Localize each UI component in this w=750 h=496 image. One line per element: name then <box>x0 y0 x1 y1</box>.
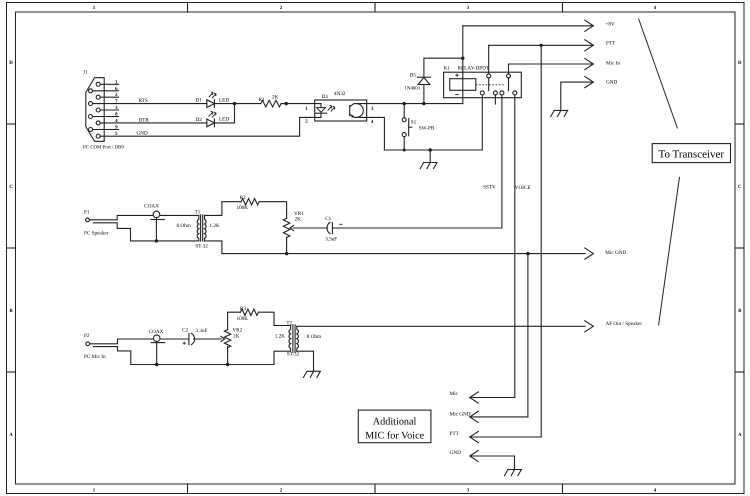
svg-text:1.2K: 1.2K <box>210 223 220 229</box>
node Additional MIC for Voice box <box>358 410 431 443</box>
svg-text:PTT: PTT <box>606 40 616 46</box>
svg-text:R3: R3 <box>240 306 246 312</box>
wire contact4 down to Mic <box>514 95 516 398</box>
ground <box>551 110 568 116</box>
wire GND bottom to ground <box>514 456 516 470</box>
connector P1 <box>86 218 90 222</box>
wire P1 sleeve to shield rail <box>93 223 199 241</box>
wire brace diagonal lower <box>659 177 680 326</box>
node junction after R1 <box>285 102 288 105</box>
resistor R3 100K <box>240 309 258 315</box>
svg-text:Mic GND: Mic GND <box>450 412 471 418</box>
potentiometer VR1 2K <box>283 218 289 237</box>
wire pole1 up to PTT <box>488 45 490 74</box>
ground <box>429 150 431 163</box>
node mic gnd junction <box>526 252 529 255</box>
svg-text:COAX: COAX <box>144 203 159 209</box>
wire R1 to opto pin1 <box>281 103 315 105</box>
svg-text:GND: GND <box>137 131 148 137</box>
svg-text:A: A <box>9 432 13 438</box>
J1 pin 3 <box>96 108 100 112</box>
coax shield connector 1 <box>153 211 160 218</box>
switch S1 SW-PB <box>402 118 406 122</box>
zone tick right D/C <box>735 123 744 125</box>
connector J1 (DB9) body <box>86 78 104 142</box>
svg-text:D: D <box>738 60 742 66</box>
K1 pole 1 common contact <box>487 74 491 78</box>
wire contact3 down to SSTV <box>501 95 503 228</box>
K1 bottom contact 2 (nc stub) <box>493 91 497 95</box>
op-amp U1 : optocoupler D3 4N32 box <box>315 100 367 121</box>
svg-text:PC Speaker: PC Speaker <box>84 230 109 236</box>
svg-text:3.3uF: 3.3uF <box>196 328 208 334</box>
svg-text:D2: D2 <box>196 117 203 123</box>
svg-text:D1: D1 <box>196 98 203 104</box>
svg-text:2K: 2K <box>295 217 302 223</box>
svg-text:SSTV: SSTV <box>483 185 496 191</box>
svg-text:PC COM Port / DB9: PC COM Port / DB9 <box>83 145 124 151</box>
svg-text:PTT: PTT <box>450 431 460 437</box>
svg-text:R1: R1 <box>259 97 265 103</box>
node D5 top junction <box>461 57 464 60</box>
svg-text:K1: K1 <box>444 66 451 72</box>
J1 pin 5 <box>96 134 100 138</box>
svg-text:R2: R2 <box>240 195 246 201</box>
svg-text:J1: J1 <box>83 70 88 76</box>
svg-text:D3: D3 <box>322 94 329 100</box>
K1 bottom contact 4 <box>513 91 517 95</box>
node junction D1/D2 <box>233 102 236 105</box>
wire rail up to T2 primary bottom <box>274 351 291 364</box>
arrow GND bottom <box>470 455 515 457</box>
connector P2 <box>86 342 90 346</box>
zone tick bottom 3/4 <box>562 484 564 494</box>
zone tick left D/C <box>7 123 16 125</box>
wire PTT down to bottom <box>540 45 542 437</box>
J1 pin 6 <box>89 89 93 93</box>
svg-text:1N4001: 1N4001 <box>405 85 421 91</box>
svg-text:8 Ohm: 8 Ohm <box>177 223 191 229</box>
relay K1 RELAY-DPDT box <box>444 72 522 98</box>
node S1 top junction <box>403 102 406 105</box>
J1 pin 8 <box>89 115 93 119</box>
zone tick bottom 2/3 <box>374 484 376 494</box>
wire R2 to VR1 top <box>259 202 287 219</box>
potentiometer VR2 2K <box>224 330 230 348</box>
wire VR1 bottom to rail <box>286 237 288 253</box>
svg-text:VOICE: VOICE <box>515 185 531 191</box>
node VR1 bottom junction <box>285 252 288 255</box>
svg-text:C: C <box>9 184 13 190</box>
capacitor C1 3.3uF <box>327 223 330 234</box>
zone tick top 3/4 <box>562 3 564 13</box>
svg-text:T1: T1 <box>195 210 201 216</box>
wire C2 to VR2 wiper <box>194 338 222 340</box>
node S1 bottom junction <box>403 149 406 152</box>
transformer T1 secondary <box>205 215 207 241</box>
resistor R1 2K <box>261 100 281 107</box>
svg-text:Mic: Mic <box>450 391 459 397</box>
svg-text:2K: 2K <box>272 95 279 101</box>
resistor R2 100K <box>241 199 259 205</box>
wire +8V down through coil <box>462 26 464 104</box>
wire GND top right <box>561 82 594 110</box>
T2 core <box>292 325 294 352</box>
wire PTT <box>489 44 594 46</box>
svg-text:2K: 2K <box>233 333 240 339</box>
svg-text:C: C <box>738 184 742 190</box>
wire P2 sleeve to shield rail <box>93 347 274 365</box>
svg-text:RTS: RTS <box>139 98 148 104</box>
wire D2 cathode up to RTS node <box>214 104 234 123</box>
wire C1 to SSTV vertical <box>332 227 502 229</box>
svg-text:1.2K: 1.2K <box>275 334 285 340</box>
svg-text:T2: T2 <box>286 321 292 327</box>
svg-text:4N32: 4N32 <box>334 91 346 97</box>
wire P2 tip to C2 <box>90 339 189 344</box>
svg-text:LED: LED <box>219 117 229 123</box>
svg-text:MIC for Voice: MIC for Voice <box>365 431 425 442</box>
svg-text:AF Out / Speaker: AF Out / Speaker <box>606 321 643 327</box>
ground <box>304 371 321 377</box>
svg-text:PC Mic In: PC Mic In <box>84 354 106 360</box>
svg-text:8 Ohm: 8 Ohm <box>307 334 321 340</box>
svg-text:100K: 100K <box>237 205 249 211</box>
T1 core <box>200 215 202 241</box>
wire mic gnd down <box>527 254 529 417</box>
K1 bottom contact 3 <box>500 91 504 95</box>
zone tick left B/A <box>7 371 16 373</box>
wire T1 sec top to R2 <box>205 202 242 216</box>
svg-text:DTR: DTR <box>139 117 150 123</box>
wire RTS pin7 to D1 <box>93 103 207 105</box>
K1 pole 2 common contact <box>507 74 511 78</box>
node PTT junction <box>540 44 543 47</box>
J1 pin 4 <box>96 121 100 125</box>
svg-text:P1: P1 <box>84 210 90 216</box>
node D5 bottom junction <box>422 102 425 105</box>
svg-text:Additional: Additional <box>373 416 417 427</box>
svg-text:GND: GND <box>450 450 461 456</box>
transformer T2 secondary <box>297 326 299 351</box>
wire VR2 top to R3 <box>228 312 241 329</box>
J1 pin 1 <box>96 82 100 86</box>
zone tick right C/B <box>735 247 744 249</box>
svg-text:100K: 100K <box>237 316 249 322</box>
D3 internal phototransistor <box>349 106 351 116</box>
wire R3 to T2 primary top <box>258 312 290 325</box>
svg-text:S1: S1 <box>411 119 417 125</box>
zone tick right B/A <box>735 371 744 373</box>
wire brace diagonal upper <box>639 19 678 129</box>
svg-text:A: A <box>738 432 742 438</box>
svg-text:SW-PB: SW-PB <box>419 126 435 132</box>
svg-text:Mic In: Mic In <box>606 60 620 66</box>
node coax1 shield junction <box>155 239 158 242</box>
svg-text:ST-32: ST-32 <box>195 243 208 249</box>
node ground junction <box>429 148 432 151</box>
node To Transceiver box <box>652 144 730 163</box>
wire P1 tip to T1 top <box>89 215 198 219</box>
wire +8V <box>463 25 594 27</box>
wire GND pin5 to opto pin2 <box>100 117 315 136</box>
node VR2 bottom junction <box>226 363 229 366</box>
LED D2 <box>207 119 215 127</box>
wire DTR pin4 to D2 <box>100 122 207 124</box>
wire T1 sec bottom to mic gnd rail <box>205 241 222 254</box>
wire pole2 up to Mic In <box>508 64 510 74</box>
zone tick bottom 1/2 <box>187 484 189 494</box>
capacitor C2 3.3uF <box>188 333 190 344</box>
wire pin4 down to rail <box>367 117 385 150</box>
wire D1 cathode to junction <box>214 103 260 105</box>
ground <box>505 470 522 476</box>
zone tick left C/B <box>7 247 16 249</box>
arrow Mic bottom <box>470 397 515 399</box>
wire mic gnd rail <box>222 253 585 255</box>
node coax2 shield junction <box>155 363 158 366</box>
wire T2 sec bottom to ground <box>297 351 314 371</box>
svg-text:Mic GND: Mic GND <box>605 250 626 256</box>
svg-text:COAX: COAX <box>149 329 164 335</box>
arrow AF Out <box>585 321 594 332</box>
svg-text:LED: LED <box>219 98 229 104</box>
wire opto pin3 rail to coil bottom <box>367 103 463 105</box>
svg-text:D5: D5 <box>410 72 417 78</box>
svg-text:GND: GND <box>606 79 617 85</box>
arrow PTT bottom <box>470 436 541 438</box>
svg-text:C1: C1 <box>325 216 331 222</box>
LED D1 <box>207 100 215 108</box>
D3 internal LED <box>315 104 321 108</box>
wire T2 sec top AF out <box>297 325 585 327</box>
wire rail to relay contact <box>384 95 482 150</box>
wire Mic In <box>509 63 594 65</box>
zone tick top 2/3 <box>374 3 376 13</box>
svg-text:To Transceiver: To Transceiver <box>659 149 725 161</box>
VR1 wiper arrow <box>293 227 328 229</box>
coax shield connector 2 <box>153 335 160 342</box>
arrow Mic GND bottom <box>470 416 528 418</box>
svg-text:ST-32: ST-32 <box>287 352 300 358</box>
transformer T1 primary <box>197 215 199 241</box>
svg-text:P2: P2 <box>84 333 90 339</box>
arrow Mic GND <box>585 248 594 259</box>
J1 pin 9 <box>89 128 93 132</box>
svg-text:3.3uF: 3.3uF <box>325 236 337 242</box>
svg-text:D: D <box>9 60 13 66</box>
J1 pin 7 <box>89 102 93 106</box>
diode D5 1N4001 <box>418 77 430 84</box>
K1 bottom contact 1 <box>480 91 484 95</box>
K1 coil <box>450 79 476 91</box>
transformer T2 primary <box>289 326 291 352</box>
svg-text:+8V: +8V <box>606 22 616 28</box>
K1 dashed actuator line <box>476 84 506 86</box>
zone tick top 1/2 <box>187 3 189 13</box>
svg-text:C2: C2 <box>182 328 188 334</box>
wire VR2 bottom to rail <box>227 347 229 365</box>
J1 pin 2 <box>96 95 100 99</box>
